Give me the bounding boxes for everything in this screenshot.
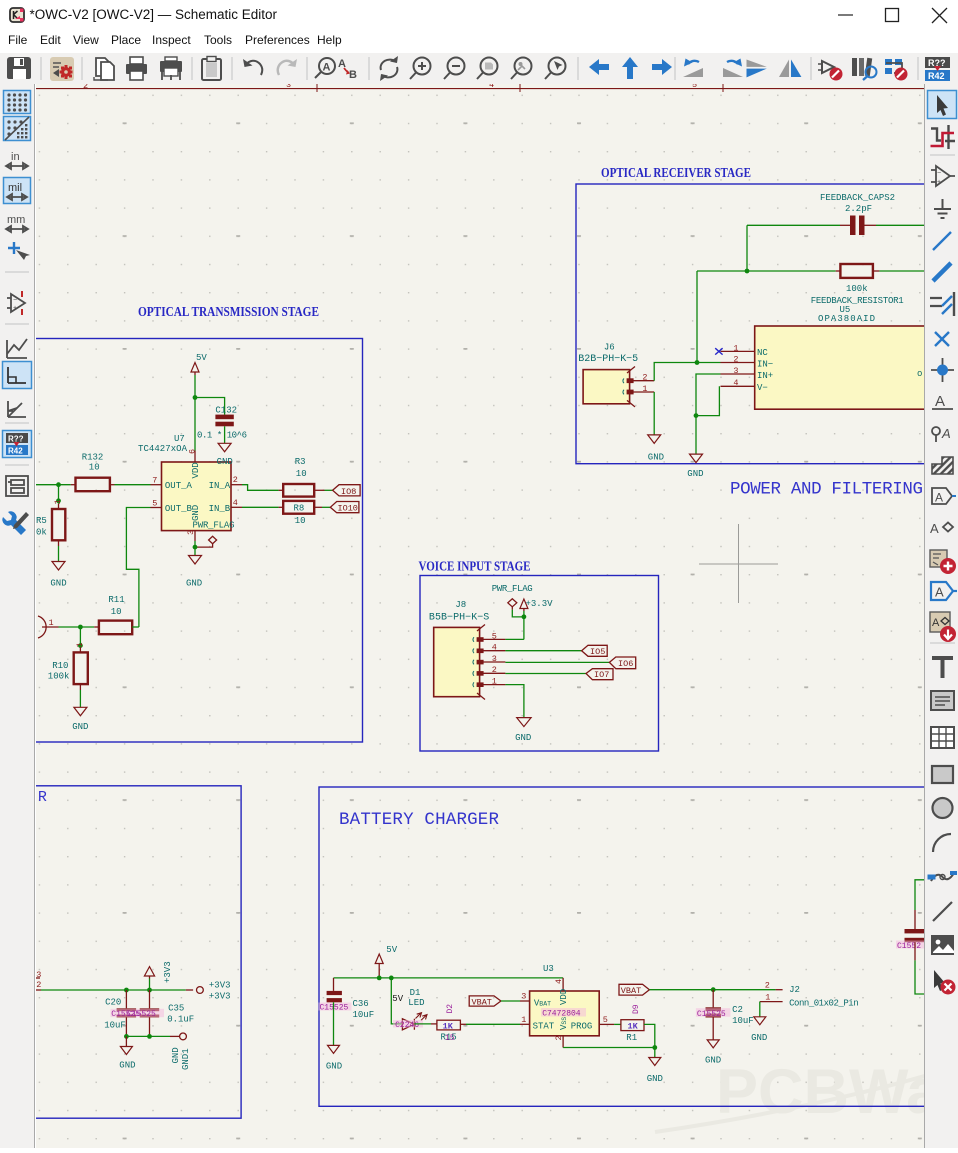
svg-text:R1: R1 (626, 1033, 637, 1043)
svg-text:0.1uF: 0.1uF (167, 1015, 194, 1025)
svg-text:10: 10 (295, 516, 306, 526)
svg-text:FEEDBACK_CAPS2: FEEDBACK_CAPS2 (820, 193, 895, 203)
svg-text:2: 2 (765, 981, 770, 991)
svg-text:FEEDBACK_RESISTOR1: FEEDBACK_RESISTOR1 (811, 296, 904, 306)
svg-text:3: 3 (733, 366, 738, 376)
svg-text:R132: R132 (82, 452, 104, 462)
svg-text:OPTICAL RECEIVER STAGE: OPTICAL RECEIVER STAGE (601, 165, 751, 180)
svg-text:J6: J6 (604, 342, 615, 352)
svg-text:C20: C20 (105, 998, 121, 1008)
svg-text:A: A (935, 491, 943, 505)
svg-text:5V: 5V (196, 353, 207, 363)
svg-text:GND: GND (72, 722, 88, 732)
svg-text:+: + (937, 179, 941, 186)
svg-text:R10: R10 (52, 661, 68, 671)
svg-text:OUT_A: OUT_A (165, 481, 193, 491)
svg-text:C2246: C2246 (395, 1021, 419, 1030)
svg-text:LED: LED (408, 998, 424, 1008)
svg-text:100k: 100k (48, 672, 70, 682)
svg-text:in: in (11, 151, 20, 163)
svg-text:−: − (13, 297, 17, 304)
svg-text:J8: J8 (455, 600, 466, 610)
svg-text:B5B−PH−K−S: B5B−PH−K−S (429, 613, 489, 624)
svg-text:A: A (932, 617, 940, 629)
svg-text:IO5: IO5 (590, 647, 605, 657)
svg-text:GND: GND (515, 733, 531, 743)
svg-text:OUT_B: OUT_B (165, 504, 193, 514)
svg-text:mil: mil (8, 182, 22, 194)
svg-text:GND1: GND1 (181, 1048, 191, 1070)
svg-text:mm: mm (7, 214, 25, 226)
svg-text:3: 3 (492, 654, 497, 664)
svg-text:GND: GND (191, 505, 201, 521)
svg-text:GND: GND (648, 453, 664, 463)
svg-text:VOICE INPUT STAGE: VOICE INPUT STAGE (419, 559, 531, 574)
svg-text:10: 10 (296, 469, 307, 479)
svg-text:Conn_01x02_Pin: Conn_01x02_Pin (789, 998, 859, 1008)
svg-text:IO7: IO7 (594, 670, 609, 680)
svg-text:1: 1 (642, 384, 647, 394)
svg-text:2: 2 (642, 373, 647, 383)
svg-text:1: 1 (765, 993, 770, 1003)
svg-text:C15525: C15525 (127, 1010, 156, 1019)
svg-text:7: 7 (152, 476, 157, 486)
svg-text:GND: GND (50, 579, 66, 589)
svg-text:U7: U7 (174, 434, 185, 444)
svg-text:C132: C132 (215, 406, 237, 416)
svg-text:NC: NC (757, 348, 768, 358)
svg-text:+3.3V: +3.3V (526, 599, 554, 609)
svg-text:6: 6 (188, 449, 198, 454)
svg-text:3: 3 (521, 992, 526, 1002)
svg-text:5: 5 (492, 631, 497, 641)
svg-text:C15525: C15525 (697, 1010, 726, 1019)
svg-text:VDD: VDD (559, 989, 569, 1005)
svg-text:C35: C35 (168, 1004, 184, 1014)
svg-text:4: 4 (489, 84, 494, 90)
svg-text:B2B−PH−K−5: B2B−PH−K−5 (578, 354, 638, 365)
svg-text:R8: R8 (294, 504, 305, 514)
svg-text:5: 5 (692, 84, 697, 90)
svg-text:+: + (13, 305, 17, 312)
svg-text:15: 15 (445, 1034, 455, 1043)
svg-text:−: − (937, 170, 941, 177)
svg-text:A: A (323, 62, 331, 74)
svg-text:A: A (935, 393, 945, 410)
svg-text:A: A (930, 521, 939, 536)
svg-text:R5: R5 (36, 516, 47, 526)
svg-text:10uF: 10uF (732, 1016, 754, 1026)
svg-text:GND: GND (171, 1047, 181, 1063)
svg-text:VBAT: VBAT (534, 999, 551, 1009)
svg-text:PROG: PROG (571, 1022, 593, 1032)
svg-text:10uF: 10uF (104, 1021, 126, 1031)
svg-text:0k: 0k (36, 528, 47, 538)
svg-text:IN_A: IN_A (209, 481, 231, 491)
svg-text:IO8: IO8 (341, 487, 356, 497)
svg-text:4: 4 (233, 498, 238, 508)
svg-text:J2: J2 (789, 985, 800, 995)
svg-text:1: 1 (521, 1015, 526, 1025)
svg-text:IN+: IN+ (757, 371, 773, 381)
svg-text:D1: D1 (410, 988, 421, 998)
svg-text:3: 3 (186, 530, 196, 535)
svg-text:D9: D9 (632, 1004, 641, 1014)
svg-text:VDD: VDD (191, 462, 201, 478)
svg-text:IN−: IN− (757, 360, 773, 370)
svg-text:R3: R3 (295, 457, 306, 467)
svg-text:2: 2 (733, 354, 738, 364)
svg-text:D2: D2 (446, 1004, 455, 1014)
svg-text:o: o (917, 369, 922, 379)
svg-text:GND: GND (647, 1074, 663, 1084)
svg-text:1K: 1K (628, 1022, 639, 1032)
svg-text:PWR_FLAG: PWR_FLAG (193, 521, 235, 531)
svg-text:2: 2 (233, 475, 238, 485)
svg-text:C2: C2 (732, 1005, 743, 1015)
svg-text:V−: V− (757, 383, 768, 393)
svg-text:C36: C36 (353, 999, 369, 1009)
svg-text:U3: U3 (543, 964, 554, 974)
svg-text:OPA380AID: OPA380AID (818, 314, 875, 324)
svg-text:R42: R42 (8, 447, 23, 456)
svg-text:2.2pF: 2.2pF (845, 204, 872, 214)
svg-text:VBAT: VBAT (472, 997, 492, 1007)
svg-text:POWER AND FILTERING: POWER AND FILTERING (730, 480, 923, 500)
svg-text:1: 1 (733, 343, 738, 353)
svg-text:GND: GND (119, 1061, 135, 1071)
svg-text:10uF: 10uF (353, 1010, 375, 1020)
svg-text:TC4427xOA: TC4427xOA (138, 444, 188, 454)
svg-text:5V: 5V (386, 945, 397, 955)
svg-text:4: 4 (733, 378, 738, 388)
svg-text:3: 3 (286, 84, 291, 90)
svg-text:+3V3: +3V3 (209, 992, 231, 1002)
svg-text:A: A (941, 426, 951, 441)
svg-text:GND: GND (705, 1056, 721, 1066)
svg-text:10: 10 (111, 607, 122, 617)
svg-text:GND: GND (687, 469, 703, 479)
svg-text:R42: R42 (928, 71, 945, 81)
svg-text:5: 5 (152, 498, 157, 508)
svg-text:0.1 * 10^6: 0.1 * 10^6 (197, 431, 247, 441)
svg-text:+3V3: +3V3 (209, 981, 231, 991)
svg-text:OPTICAL TRANSMISSION STAGE: OPTICAL TRANSMISSION STAGE (138, 304, 319, 319)
svg-text:IO10: IO10 (338, 504, 358, 514)
svg-text:4: 4 (554, 979, 564, 984)
svg-text:10: 10 (89, 463, 100, 473)
svg-text:1K: 1K (443, 1021, 454, 1031)
svg-text:1: 1 (75, 642, 85, 647)
svg-text:IO6: IO6 (618, 659, 633, 669)
svg-text:VBAT: VBAT (621, 986, 641, 996)
svg-text:GND: GND (751, 1033, 767, 1043)
svg-text:BATTERY CHARGER: BATTERY CHARGER (339, 810, 499, 830)
svg-text:2: 2 (554, 1035, 564, 1040)
svg-text:R: R (38, 789, 47, 806)
svg-text:IN_B: IN_B (209, 504, 231, 514)
svg-text:VSS: VSS (559, 1017, 569, 1030)
svg-text:4: 4 (492, 643, 497, 653)
svg-text:A: A (935, 585, 944, 600)
svg-text:2: 2 (83, 84, 88, 91)
svg-text:PWR_FLAG: PWR_FLAG (492, 584, 533, 594)
svg-text:1: 1 (492, 677, 497, 687)
svg-text:2: 2 (492, 665, 497, 675)
svg-text:STAT: STAT (533, 1022, 555, 1032)
svg-text:B: B (349, 69, 357, 81)
svg-text:GND: GND (217, 457, 233, 467)
svg-text:100k: 100k (846, 284, 868, 294)
svg-text:R11: R11 (108, 595, 124, 605)
svg-text:5V: 5V (392, 994, 403, 1004)
svg-text:1: 1 (49, 618, 54, 628)
svg-text:GND: GND (186, 579, 202, 589)
svg-text:2: 2 (36, 980, 41, 990)
svg-text:5: 5 (603, 1015, 608, 1025)
svg-text:1: 1 (53, 499, 63, 504)
svg-text:GND: GND (326, 1062, 342, 1072)
svg-text:+3V3: +3V3 (163, 961, 173, 983)
svg-text:C1552: C1552 (897, 942, 921, 951)
